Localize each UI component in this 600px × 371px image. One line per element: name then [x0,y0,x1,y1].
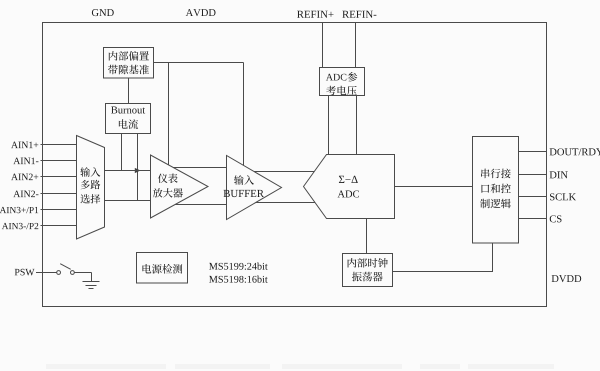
junction arrow on upper signal line [135,168,141,173]
pin label REFIN+ [297,11,333,18]
pin label SCLK [550,193,576,200]
block: power detect (电源检测) [137,253,188,284]
wire serial to pin DIN [519,174,547,176]
wire ADC to clock oscillator [366,219,368,254]
wire AIN1- to mux [41,160,77,162]
wire bias drop to in-amp [168,63,170,165]
wire bias bus to amplifiers [154,62,244,64]
wire buffer to ADC lower [256,202,315,204]
pin label AIN3+/P1 [0,207,38,213]
wire buffer to ADC upper [254,171,314,173]
wire reference to ADC (left) [328,96,330,156]
wire AIN1+ to mux [41,144,77,146]
wire ADC to serial interface [395,186,473,188]
block: burnout current (Burnout 电流) [106,104,151,134]
pin label AIN3-/P2 [2,223,38,229]
pin label AIN2- [13,191,38,197]
pin label AVDD [186,9,216,16]
pin label DOUT/RDY [550,148,600,155]
wire bandgap to burnout [128,78,130,104]
wire REFIN+ to reference block [322,23,324,68]
op-amp: input buffer (输入BUFFER) [224,156,282,220]
wire REFIN- to reference block [355,23,357,68]
block: sigma-delta ADC (Σ−Δ ADC) [304,155,395,219]
wire oscillator to serial interface [393,243,493,272]
wire mux to in-amp upper [105,170,151,172]
block: internal clock oscillator (内部时钟振荡器) [343,254,393,287]
wire serial to pin DOUT/RDY [519,151,547,153]
pin label AIN1+ [11,142,38,148]
switch: PSW power switch [36,264,92,282]
pin label REFIN- [342,11,376,18]
wire burnout to upper signal line [121,134,123,171]
wire serial to pin CS [519,218,547,220]
block: internal bias bandgap reference (内部偏置带隙基准) [104,48,154,79]
pin label CS [550,215,562,222]
pin label DIN [550,171,568,178]
wire in-amp to buffer lower [175,204,226,206]
chip outer boundary [43,23,547,307]
wire reference to ADC (right) [356,96,358,156]
wire serial to pin SCLK [519,196,547,198]
wire AIN3-/P2 to mux [41,225,77,227]
wire AIN3+/P1 to mux [41,209,77,211]
wire in-amp to buffer upper [173,167,226,169]
pin label AIN2+ [11,174,38,180]
pin label AIN1- [13,158,38,164]
block: serial interface and control logic (串行接口和控制逻辑) [473,137,519,244]
wire burnout to lower signal line [137,134,139,201]
pin label DVDD [552,275,582,282]
ground [83,282,100,289]
wire AIN2+ to mux [41,176,77,178]
pin label GND [92,9,114,16]
label MS5199:24bit / MS5198:16bit [209,263,268,283]
wire AIN2- to mux [41,193,77,195]
wire mux to in-amp lower [105,200,151,202]
op-amp: instrumentation amplifier (仪表放大器) [151,155,209,218]
block: input multiplexer (输入多路选择) [77,136,105,240]
block: ADC reference voltage (ADC参考电压) [320,68,365,96]
decorative faint bottom artifact [46,364,554,369]
pin label PSW [15,269,35,276]
wire bias drop to buffer [243,63,245,166]
